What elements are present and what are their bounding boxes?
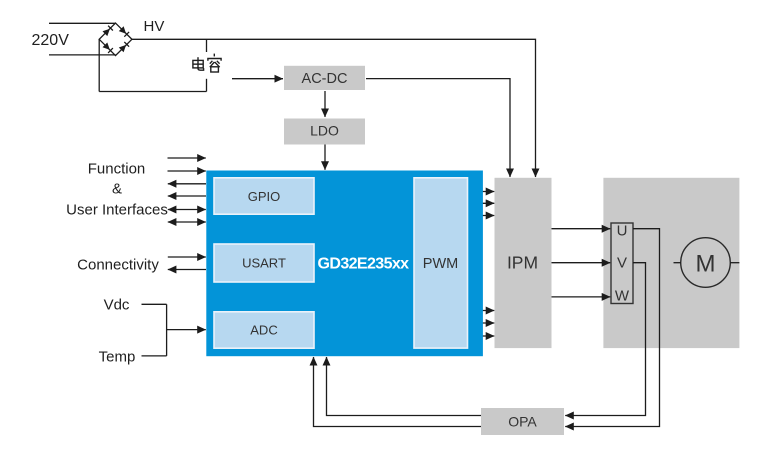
diode D2 upper-right bbox=[119, 26, 126, 33]
wire capacitor lower stub bbox=[206, 79, 208, 92]
label capacitor (dian) bbox=[193, 57, 204, 70]
arrow IPM to U bbox=[552, 228, 611, 230]
svg-text:GPIO: GPIO bbox=[248, 189, 281, 204]
arrow connectivity out bbox=[168, 269, 206, 271]
sub-block USART bbox=[214, 244, 314, 282]
svg-text:Function: Function bbox=[88, 160, 146, 177]
wire OPA to ADC 2 bbox=[314, 357, 482, 427]
arrow IPM to V bbox=[552, 262, 611, 264]
arrow sense to ADC bbox=[167, 329, 206, 331]
wire motor stub right bbox=[730, 262, 739, 264]
diode D1 upper-left bbox=[103, 29, 110, 36]
svg-text:U: U bbox=[617, 223, 628, 240]
diode D4 lower-right bbox=[119, 45, 126, 52]
block LDO bbox=[284, 119, 365, 145]
arrow user interface out 1 bbox=[168, 183, 206, 185]
wire bottom rail to capacitor bbox=[99, 91, 206, 93]
svg-text:IPM: IPM bbox=[507, 253, 538, 273]
svg-text:LDO: LDO bbox=[310, 122, 339, 138]
svg-text:GD32E235xx: GD32E235xx bbox=[318, 255, 410, 272]
arrow connectivity in bbox=[168, 256, 206, 258]
sub-block GPIO bbox=[214, 178, 314, 214]
arrow user interface bidir 1 bbox=[168, 209, 206, 211]
svg-text:V: V bbox=[617, 254, 627, 271]
wire V to OPA bbox=[565, 263, 645, 416]
wire Vdc-Temp vertical join bbox=[166, 304, 168, 356]
wire capacitor upper stub bbox=[206, 39, 208, 52]
block motor assembly bbox=[603, 178, 739, 348]
svg-text:OPA: OPA bbox=[508, 413, 537, 429]
arrow PWM to IPM 3 bbox=[468, 215, 495, 217]
arrow PWM to IPM 1 bbox=[468, 191, 495, 193]
motor M circle bbox=[681, 238, 731, 288]
svg-text:M: M bbox=[696, 250, 716, 277]
arrow PWM to IPM 5 bbox=[468, 322, 495, 324]
svg-text:Vdc: Vdc bbox=[104, 297, 130, 314]
arrow PWM to IPM 2 bbox=[468, 202, 495, 204]
svg-text:USART: USART bbox=[242, 256, 286, 271]
svg-text:AC-DC: AC-DC bbox=[302, 71, 348, 87]
arrow function input 1 bbox=[168, 157, 206, 159]
svg-text:ADC: ADC bbox=[250, 323, 277, 338]
arrow user interface out 2 bbox=[168, 195, 206, 197]
arrow AC-DC to LDO bbox=[324, 91, 326, 117]
wire 220V top lead bbox=[49, 22, 116, 24]
wire 220V bottom lead bbox=[49, 54, 116, 56]
svg-text:User Interfaces: User Interfaces bbox=[66, 202, 168, 219]
UVW terminal box bbox=[611, 223, 633, 304]
wire Temp lead bbox=[142, 355, 167, 357]
wire Vdc lead bbox=[142, 303, 167, 305]
wire AC-DC output to IPM bbox=[366, 79, 510, 177]
arrow LDO to MCU bbox=[324, 144, 326, 170]
svg-text:HV: HV bbox=[144, 18, 165, 35]
block OPA bbox=[481, 408, 564, 435]
svg-text:Temp: Temp bbox=[99, 348, 136, 365]
svg-text:220V: 220V bbox=[32, 32, 70, 49]
label capacitor (rong) bbox=[208, 54, 221, 72]
arrow IPM to W bbox=[552, 296, 611, 298]
bridge rectifier diamond bbox=[99, 23, 132, 56]
wire HV rail to IPM bbox=[132, 39, 536, 177]
MCU block GD32E235xx bbox=[206, 171, 483, 357]
block AC-DC bbox=[284, 66, 365, 90]
arrow PWM to IPM 6 bbox=[468, 335, 495, 337]
svg-text:PWM: PWM bbox=[423, 256, 458, 272]
wire U to OPA bbox=[565, 229, 659, 427]
arrow PWM to IPM 4 bbox=[468, 310, 495, 312]
sub-block ADC bbox=[214, 312, 314, 348]
wire DC minus vertical from bridge left vertex bbox=[98, 39, 100, 91]
arrow user interface bidir 2 bbox=[168, 221, 206, 223]
wire motor stub left bbox=[674, 262, 681, 264]
diode D3 lower-left bbox=[103, 43, 110, 50]
wire OPA to ADC 1 bbox=[327, 357, 482, 416]
svg-text:Connectivity: Connectivity bbox=[77, 256, 159, 273]
arrow capacitor to AC-DC bbox=[232, 78, 283, 80]
svg-text:&: & bbox=[112, 180, 122, 197]
svg-text:W: W bbox=[615, 287, 630, 304]
sub-block PWM bbox=[414, 178, 468, 348]
block IPM bbox=[495, 178, 552, 348]
arrow function input 2 bbox=[168, 170, 206, 172]
